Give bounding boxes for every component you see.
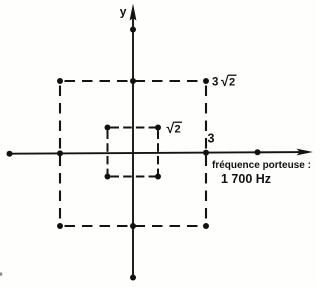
constellation points bbox=[7, 27, 261, 281]
svg-text:√: √ bbox=[167, 120, 175, 136]
outer dashed square (amplitude 3) bbox=[60, 81, 206, 226]
svg-text:√: √ bbox=[221, 73, 229, 89]
speck (scan artifact, left edge) bbox=[0, 273, 2, 276]
svg-text:y: y bbox=[120, 5, 127, 19]
svg-text:1 700 Hz: 1 700 Hz bbox=[221, 172, 271, 186]
inner dashed square (amplitude sqrt2) bbox=[108, 128, 159, 177]
svg-text:3: 3 bbox=[212, 77, 218, 89]
point (-3,0) bbox=[57, 150, 63, 156]
point (5,0) bbox=[255, 149, 261, 155]
point (1,-1) bbox=[155, 174, 161, 180]
point (-3,-3) bbox=[57, 223, 63, 229]
point (-1,-1) bbox=[105, 174, 111, 180]
label 3 sqrt2 (outer corner amplitude) bbox=[212, 73, 237, 89]
point (-5,0) bbox=[7, 151, 13, 157]
point (-3,3) bbox=[57, 78, 63, 84]
y axis bbox=[130, 4, 137, 278]
svg-text:3: 3 bbox=[208, 132, 215, 146]
point (-1,1) bbox=[105, 125, 111, 131]
svg-text:fréquence porteuse :: fréquence porteuse : bbox=[212, 160, 311, 171]
label sqrt2 (inner corner amplitude) bbox=[167, 120, 183, 136]
x axis bbox=[9, 149, 313, 156]
point (0,-5) bbox=[130, 275, 136, 281]
point (1,1) bbox=[155, 125, 161, 131]
point (3,-3) bbox=[203, 223, 209, 229]
point (0,3) bbox=[130, 78, 136, 84]
point (3,3) bbox=[203, 78, 209, 84]
point (3,0) bbox=[203, 150, 209, 156]
svg-text:2: 2 bbox=[229, 77, 235, 89]
point (0,5) bbox=[130, 27, 136, 33]
point (0,-3) bbox=[130, 223, 136, 229]
svg-text:2: 2 bbox=[175, 124, 181, 136]
